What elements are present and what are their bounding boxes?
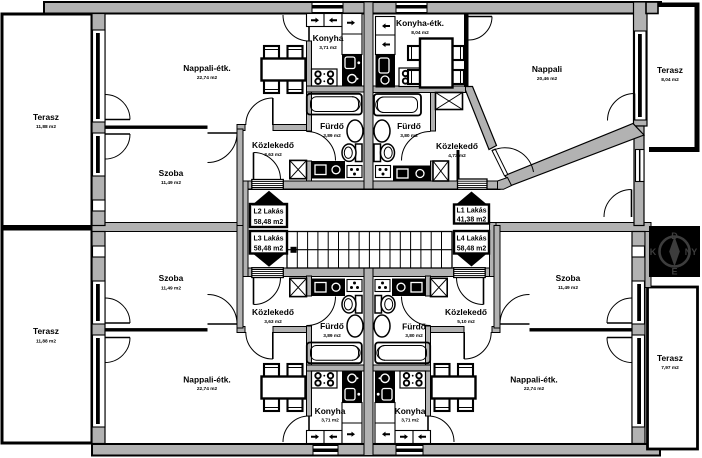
svg-text:Nappali-étk.: Nappali-étk. <box>183 63 230 73</box>
kitchen counter col TR <box>376 17 396 55</box>
svg-text:L2 Lakás: L2 Lakás <box>254 209 284 216</box>
svg-text:22,74 m2: 22,74 m2 <box>524 386 545 392</box>
bathtub TR <box>374 94 421 116</box>
svg-text:Fürdő: Fürdő <box>402 322 426 332</box>
entry hatch TL <box>252 180 283 190</box>
wall diagonal upper TR <box>464 87 497 150</box>
door furdo TL <box>307 132 336 161</box>
toilet TL <box>342 144 362 162</box>
wall central spine lower <box>364 268 373 456</box>
svg-text:3,71 m2: 3,71 m2 <box>319 45 337 51</box>
staircase <box>287 232 452 269</box>
apartment bottom-right (180 deg rotation of TL) <box>373 226 645 444</box>
wall kitchen-bath spine TL <box>307 41 312 131</box>
svg-text:3,89 m2: 3,89 m2 <box>323 333 341 339</box>
svg-text:5,10 m2: 5,10 m2 <box>457 319 475 325</box>
dotted box TL <box>347 166 362 178</box>
wall konyha-furdo TR <box>373 86 466 93</box>
apartment bottom-left (mirror of TL) <box>92 226 364 444</box>
svg-text:20,46 m2: 20,46 m2 <box>537 76 558 82</box>
svg-text:NY: NY <box>685 247 698 257</box>
svg-text:Közlekedő: Közlekedő <box>436 141 478 151</box>
wall kozlekedo top TL <box>273 125 307 131</box>
dotted box TR <box>376 166 391 178</box>
wall corridor top <box>243 181 500 189</box>
toilet TR <box>374 144 395 162</box>
washbasin TL <box>347 120 363 142</box>
svg-text:11,88 m2: 11,88 m2 <box>36 124 56 130</box>
svg-text:11,49 m2: 11,49 m2 <box>558 285 578 291</box>
svg-text:3,80 m2: 3,80 m2 <box>405 333 423 339</box>
wall right mid TR <box>634 126 644 226</box>
svg-text:L3 Lakás: L3 Lakás <box>254 236 284 243</box>
svg-text:8,04 m2: 8,04 m2 <box>661 77 679 83</box>
svg-text:Konyha: Konyha <box>315 406 346 416</box>
svg-text:D: D <box>671 231 678 241</box>
window balcony szoba TL <box>93 133 131 176</box>
svg-text:58,48 m2: 58,48 m2 <box>254 219 284 226</box>
wall konyha-nappali TR <box>464 14 469 88</box>
wall corridor bottom <box>243 268 496 277</box>
svg-text:41,38 m2: 41,38 m2 <box>457 217 487 224</box>
wardrobe TR 1 <box>436 93 463 110</box>
kitchen counter top TL <box>307 14 343 27</box>
svg-text:Terasz: Terasz <box>33 326 59 336</box>
svg-text:3,89 m2: 3,89 m2 <box>323 133 341 139</box>
wall diagonal joint TR <box>498 178 512 190</box>
svg-text:Nappali-étk.: Nappali-étk. <box>183 375 230 385</box>
svg-text:11,49 m2: 11,49 m2 <box>161 180 181 186</box>
window kitchen BR in bottom band <box>396 445 423 455</box>
wall furdo-kozlekedo TR <box>431 93 436 132</box>
svg-text:Közlekedő: Közlekedő <box>445 307 487 317</box>
arrow up L2 <box>252 191 287 206</box>
door exit corridor east <box>631 190 633 218</box>
door konyha-nappali TR <box>469 16 493 18</box>
svg-text:Fürdő: Fürdő <box>320 321 344 331</box>
terasz TR room <box>647 3 698 152</box>
svg-text:Szoba: Szoba <box>556 273 581 283</box>
entry hatch TR <box>458 179 488 189</box>
kitchen counter right TL <box>342 14 362 55</box>
kitchen sink unit TR <box>376 55 396 88</box>
svg-text:Terasz: Terasz <box>33 112 59 122</box>
door balcony nappali TR <box>634 94 636 121</box>
svg-text:L4 Lakás: L4 Lakás <box>457 236 487 243</box>
washer unit black TL <box>312 161 346 179</box>
window kitchen TL in top band <box>312 3 343 13</box>
chairs table TL <box>264 46 303 93</box>
washer unit black TR <box>393 166 430 182</box>
door nappali on diagonal TR <box>492 149 508 176</box>
wall apartment divider right <box>490 223 652 232</box>
wall corridor left <box>243 181 249 277</box>
window balcony nappali TL <box>93 30 131 122</box>
wall nappali-szoba TL <box>105 126 208 129</box>
svg-text:7,97 m2: 7,97 m2 <box>661 365 679 371</box>
door szoba TL <box>208 132 238 134</box>
window lower right TR <box>636 150 645 182</box>
wall stub kozlekedo TR <box>457 150 460 181</box>
svg-text:22,74 m2: 22,74 m2 <box>197 386 218 392</box>
arrow up L1 <box>456 192 487 205</box>
wall right BR <box>645 232 651 288</box>
label box L2 <box>250 204 287 227</box>
wardrobe TL <box>290 160 307 178</box>
arrow down L3 <box>252 253 287 267</box>
washbasin TR <box>374 120 390 142</box>
kitchen fridge unit TL <box>342 71 362 87</box>
window kitchen BL in bottom band <box>313 445 338 455</box>
svg-text:3,63 m2: 3,63 m2 <box>264 152 282 158</box>
svg-text:8,04 m2: 8,04 m2 <box>411 30 429 36</box>
svg-text:É: É <box>671 267 677 277</box>
svg-text:K: K <box>650 247 657 257</box>
arrow down L4 <box>456 254 487 267</box>
wall diagonal main TR <box>505 124 644 186</box>
chairs table TR <box>408 46 464 84</box>
svg-text:Fürdő: Fürdő <box>320 121 344 131</box>
svg-text:Terasz: Terasz <box>657 353 683 363</box>
svg-text:3,80 m2: 3,80 m2 <box>400 133 418 139</box>
apartment top-left geometry <box>92 14 364 232</box>
compass <box>649 226 700 277</box>
table TR <box>420 39 453 88</box>
terasz bottom-right room <box>648 287 698 449</box>
label box L1 <box>454 205 489 224</box>
wall stub TL <box>237 125 245 131</box>
door entry TL <box>253 153 255 180</box>
svg-text:Közlekedő: Közlekedő <box>252 307 294 317</box>
svg-text:Szoba: Szoba <box>159 273 184 283</box>
wall central spine upper <box>364 2 373 189</box>
svg-text:Szoba: Szoba <box>159 168 184 178</box>
kitchen sink unit TL <box>342 55 362 72</box>
window kitchen TR in top band <box>396 3 427 13</box>
svg-text:22,74 m2: 22,74 m2 <box>197 75 218 81</box>
door balcony nappali TL <box>105 119 130 121</box>
window balcony nappali TR right <box>608 31 647 121</box>
svg-text:Nappali-étk.: Nappali-étk. <box>510 375 557 385</box>
wall terasz left divider <box>2 225 92 231</box>
svg-text:58,48 m2: 58,48 m2 <box>254 246 284 253</box>
svg-text:Konyha: Konyha <box>313 33 344 43</box>
svg-text:Terasz: Terasz <box>657 65 683 75</box>
svg-text:3,71 m2: 3,71 m2 <box>321 418 339 424</box>
table TL <box>262 59 306 81</box>
stove TR <box>399 68 425 87</box>
svg-text:4,73 m2: 4,73 m2 <box>448 153 466 159</box>
svg-text:3,63 m2: 3,63 m2 <box>264 319 282 325</box>
wall konyha-furdo TL <box>307 86 365 92</box>
door furdo TR <box>402 132 431 161</box>
wall corridor right lower <box>490 223 497 277</box>
apartment top-right geometry <box>373 2 700 226</box>
label box L4 <box>454 231 489 254</box>
wall szoba-kozlekedo TL <box>237 129 243 232</box>
stove TL <box>312 69 338 86</box>
wall top exterior band <box>44 2 661 14</box>
door konyha TL <box>308 15 310 41</box>
counter arrows TL <box>311 18 337 23</box>
door balcony szoba TL <box>105 133 130 135</box>
svg-text:Konyha-étk.: Konyha-étk. <box>396 18 444 28</box>
svg-text:Fürdő: Fürdő <box>397 121 421 131</box>
wall band patch over terasz TR corner <box>646 2 658 14</box>
wall terasz TR left <box>634 2 648 126</box>
svg-text:Konyha: Konyha <box>395 406 426 416</box>
label box L3 <box>250 231 287 254</box>
svg-text:11,88 m2: 11,88 m2 <box>36 339 56 345</box>
svg-text:3,71 m2: 3,71 m2 <box>401 418 419 424</box>
svg-text:L1 Lakás: L1 Lakás <box>457 208 487 215</box>
wardrobe TR 2 <box>433 161 449 181</box>
wall bottom exterior band <box>92 444 660 456</box>
niche szoba wall TL <box>93 200 106 211</box>
svg-text:Közlekedő: Közlekedő <box>252 140 294 150</box>
wall exterior left <box>92 14 105 226</box>
wall apartment divider left <box>92 223 243 232</box>
svg-text:11,49 m2: 11,49 m2 <box>161 286 181 292</box>
terasz left room <box>2 14 92 443</box>
bathtub TL <box>307 94 362 115</box>
svg-text:Nappali: Nappali <box>532 64 562 74</box>
svg-text:58,48 m2: 58,48 m2 <box>457 246 487 253</box>
door nappali from kozlekedo TL <box>272 98 274 125</box>
